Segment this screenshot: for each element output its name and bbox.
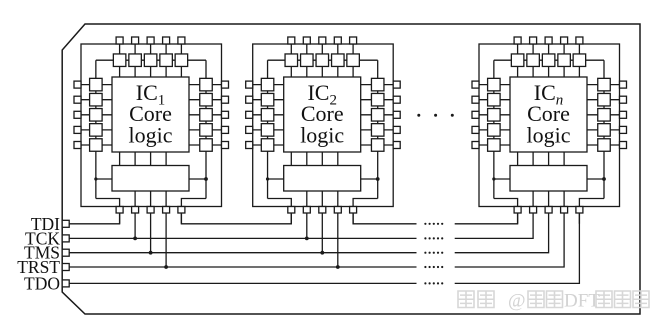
ICn left pin 5 <box>472 142 479 149</box>
ICn left scan cell 3 <box>488 109 501 122</box>
IC2 wire left row 5 <box>250 144 284 146</box>
IC1 right scan cell 4 <box>200 124 213 136</box>
ICn right pin 5 <box>620 142 627 149</box>
IC2 wire left row 4 <box>250 129 284 131</box>
IC2 wire TDO exit pin5 <box>353 199 378 224</box>
ICn wire core-TAP 3 <box>548 152 550 166</box>
IC1 wire TAP-pin3 <box>150 191 152 213</box>
ICn core logic block <box>510 77 587 152</box>
IC1 left pin 4 <box>74 126 81 133</box>
wire IC2 pin3 drop <box>321 213 323 253</box>
IC2 left scan cell 4 <box>261 124 274 136</box>
ICn wire TAP-pin3 <box>548 191 550 213</box>
wire TDI bus to IC1 pin1 <box>69 213 120 224</box>
ICn bottom pin 5 <box>576 207 583 214</box>
IC1 wire top column 2 <box>134 40 136 77</box>
IC1 wire core-TAP 3 <box>150 152 152 166</box>
svg-text:@: @ <box>508 291 526 312</box>
ICn wire right row 4 <box>587 129 623 131</box>
ICn bottom pin 2 <box>530 207 537 214</box>
board pin TDO <box>62 280 69 287</box>
ICn wire core-TAP 2 <box>532 152 534 166</box>
ICn left pin 3 <box>472 111 479 118</box>
IC1 wire TAP-pin2 <box>134 191 136 213</box>
IC1 scan-chain wire top row <box>96 59 206 61</box>
svg-text:DFT: DFT <box>564 291 600 312</box>
IC2 wire right row 1 <box>361 84 397 86</box>
ICn wire left row 5 <box>476 144 510 146</box>
ICn junction TAP right <box>602 177 606 181</box>
ICn top scan cell 2 <box>527 54 540 66</box>
IC2 left scan cell 2 <box>261 93 274 106</box>
IC2 wire right row 4 <box>361 129 397 131</box>
wire IC2 TDO toward ICn <box>353 213 416 224</box>
svg-text:logic: logic <box>129 123 173 148</box>
IC2 right pin 2 <box>393 96 400 103</box>
ICn wire right row 1 <box>587 84 623 86</box>
ICn top pin 1 <box>514 37 521 44</box>
IC2 right pin 1 <box>393 81 400 88</box>
IC1 top pin 4 <box>163 37 170 44</box>
IC2 top scan cell 5 <box>347 54 360 66</box>
ICn bottom pin 3 <box>545 207 552 214</box>
IC1 top pin 3 <box>147 37 154 44</box>
ICn right scan cell 2 <box>598 93 611 106</box>
IC2 wire TDI entry pin1 <box>268 199 292 224</box>
ICn top scan cell 4 <box>558 54 571 66</box>
ICn top scan cell 1 <box>511 54 523 66</box>
ICn wire TAP-pin2 <box>532 191 534 213</box>
ICn right pin 3 <box>620 111 627 118</box>
ICn wire top column 2 <box>532 40 534 77</box>
IC2 top pin 1 <box>288 37 295 44</box>
ICn scan-chain wire left column <box>493 60 495 198</box>
IC1 wire core-TAP 4 <box>165 152 167 166</box>
watermark zhihu <box>458 291 474 308</box>
IC1 right pin 5 <box>222 142 229 149</box>
ICn left scan cell 1 <box>488 78 501 91</box>
dots TRST continuation <box>424 266 426 268</box>
ICn right pin 4 <box>620 126 627 133</box>
IC1 right pin 3 <box>222 111 229 118</box>
board pin TDI <box>62 220 69 227</box>
ICn right scan cell 4 <box>598 124 611 136</box>
IC1 wire left row 4 <box>78 129 112 131</box>
IC1 top scan cell 5 <box>175 54 188 66</box>
wire TMS bus <box>69 252 417 254</box>
IC2 wire TAP-pin3 <box>321 191 323 213</box>
IC1 right scan cell 1 <box>200 78 213 91</box>
IC1 right scan cell 3 <box>200 109 213 122</box>
ICn right pin 1 <box>620 81 627 88</box>
svg-text:logic: logic <box>300 123 344 148</box>
ICn wire right row 2 <box>587 99 623 101</box>
dots TDI-chain continuation <box>424 223 426 225</box>
IC2 wire top column 4 <box>337 40 339 77</box>
IC1 top pin 2 <box>132 37 139 44</box>
IC1 scan-chain wire right column <box>205 60 207 198</box>
ICn left pin 1 <box>472 81 479 88</box>
IC2 right pin 5 <box>393 142 400 149</box>
ICn top pin 3 <box>545 37 552 44</box>
ICn left scan cell 2 <box>488 93 501 106</box>
IC1 left scan cell 1 <box>90 78 103 91</box>
IC2 wire right row 2 <box>361 99 397 101</box>
ICn scan-chain wire top row <box>494 59 604 61</box>
junction TRST-IC2 <box>336 265 340 269</box>
IC1 right scan cell 2 <box>200 93 213 106</box>
IC1 bottom pin 3 <box>147 207 154 214</box>
ICn wire top column 1 <box>517 40 519 77</box>
IC1 wire core-TAP 2 <box>134 152 136 166</box>
IC2 right pin 4 <box>393 126 400 133</box>
ICn wire left row 4 <box>476 129 510 131</box>
IC1 top pin 5 <box>178 37 185 44</box>
ICn top scan cell 5 <box>573 54 586 66</box>
ICn top pin 5 <box>576 37 583 44</box>
IC2 TAP controller <box>284 166 361 192</box>
wire IC1 TDO to IC2 TDI <box>181 213 291 224</box>
IC2 right pin 3 <box>393 111 400 118</box>
IC1 right pin 4 <box>222 126 229 133</box>
IC2 wire core-TAP 1 <box>290 152 292 166</box>
IC2 core logic block <box>284 77 361 152</box>
IC2 wire TAP left <box>268 178 284 180</box>
IC1 wire TAP-pin4 <box>165 191 167 213</box>
IC1 left pin 5 <box>74 142 81 149</box>
IC2 bottom pin 3 <box>319 207 326 214</box>
ICn wire TAP left <box>494 178 510 180</box>
IC2 top scan cell 3 <box>316 54 329 66</box>
IC2 top scan cell 2 <box>301 54 314 66</box>
IC1 left pin 2 <box>74 96 81 103</box>
IC2 wire TAP-pin4 <box>337 191 339 213</box>
board pin TCK <box>62 235 69 242</box>
IC1 top scan cell 3 <box>144 54 157 66</box>
ICn wire TAP right <box>587 178 604 180</box>
ICn wire left row 3 <box>476 114 510 116</box>
IC1 wire top column 4 <box>165 40 167 77</box>
IC1 left pin 3 <box>74 111 81 118</box>
ICn wire right row 3 <box>587 114 623 116</box>
IC2 wire core-TAP 3 <box>321 152 323 166</box>
wire ICn TDO return <box>455 213 580 283</box>
wire TRST to ICn pin4 <box>455 213 564 267</box>
IC1 wire top column 3 <box>150 40 152 77</box>
IC2 right scan cell 3 <box>371 109 384 122</box>
IC2 wire left row 2 <box>250 99 284 101</box>
IC2 left pin 2 <box>246 96 253 103</box>
ICn bottom pin 4 <box>561 207 568 214</box>
IC1 wire left row 2 <box>78 99 112 101</box>
IC1 right scan cell 5 <box>200 139 213 152</box>
junction TCK-IC2 <box>305 237 309 241</box>
IC2 bottom pin 5 <box>350 207 357 214</box>
board pin TMS <box>62 249 69 256</box>
IC2 left pin 1 <box>246 81 253 88</box>
ICn package <box>479 44 620 207</box>
IC1 wire left row 1 <box>78 84 112 86</box>
IC2 wire TAP right <box>361 178 378 180</box>
IC2 left scan cell 1 <box>261 78 274 91</box>
svg-text:logic: logic <box>527 123 571 148</box>
ICn left pin 2 <box>472 96 479 103</box>
IC1 wire top column 1 <box>119 40 121 77</box>
ICn wire left row 2 <box>476 99 510 101</box>
IC1 top scan cell 2 <box>129 54 142 66</box>
IC2 left pin 3 <box>246 111 253 118</box>
IC2 bottom pin 4 <box>334 207 341 214</box>
ICn left pin 4 <box>472 126 479 133</box>
IC2 left pin 4 <box>246 126 253 133</box>
IC2 wire right row 5 <box>361 144 397 146</box>
IC2 scan-chain wire top row <box>268 59 378 61</box>
IC2 wire left row 1 <box>250 84 284 86</box>
IC1 wire right row 1 <box>189 84 225 86</box>
IC2 bottom pin 2 <box>303 207 310 214</box>
dots TCK continuation <box>424 237 426 239</box>
IC1 scan-chain wire left column <box>95 60 97 198</box>
ICn wire core-TAP 1 <box>517 152 519 166</box>
IC2 top scan cell 1 <box>285 54 298 66</box>
IC1 right pin 1 <box>222 81 229 88</box>
IC2 wire TAP-pin2 <box>306 191 308 213</box>
wire IC2 pin2 drop <box>306 213 308 238</box>
IC1 bottom pin 5 <box>178 207 185 214</box>
wire IC1 pin3 drop <box>150 213 152 253</box>
IC1 wire core-TAP 1 <box>119 152 121 166</box>
ICn scan-chain wire right column <box>603 60 605 198</box>
IC1 top scan cell 1 <box>113 54 126 66</box>
junction TMS-IC1 <box>149 251 153 255</box>
IC2 top pin 2 <box>303 37 310 44</box>
IC1 wire right row 2 <box>189 99 225 101</box>
ICn wire top column 4 <box>563 40 565 77</box>
IC2 wire right row 3 <box>361 114 397 116</box>
IC1 wire top column 5 <box>180 40 182 77</box>
ICn TAP controller <box>510 166 587 192</box>
IC2 top pin 4 <box>334 37 341 44</box>
ICn left scan cell 4 <box>488 124 501 136</box>
ICn wire left row 1 <box>476 84 510 86</box>
IC2 scan-chain wire left column <box>267 60 269 198</box>
junction TMS-IC2 <box>320 251 324 255</box>
IC1 wire right row 5 <box>189 144 225 146</box>
ellipsis between IC2 and ICn <box>417 114 420 117</box>
ICn top pin 4 <box>561 37 568 44</box>
IC2 left scan cell 5 <box>261 139 274 152</box>
IC2 wire top column 1 <box>290 40 292 77</box>
ICn junction TAP left <box>492 177 495 180</box>
IC2 top scan cell 4 <box>332 54 345 66</box>
junction TCK-IC1 <box>133 237 137 241</box>
IC2 right scan cell 2 <box>371 93 384 106</box>
IC2 top pin 3 <box>319 37 326 44</box>
PCB board outline <box>62 24 640 314</box>
IC1 right pin 2 <box>222 96 229 103</box>
ICn wire top column 3 <box>548 40 550 77</box>
IC2 wire top column 5 <box>352 40 354 77</box>
ICn wire TAP-pin4 <box>563 191 565 213</box>
ICn wire right row 5 <box>587 144 623 146</box>
IC1 left scan cell 5 <box>90 139 103 152</box>
IC2 package <box>253 44 394 207</box>
ICn right pin 2 <box>620 96 627 103</box>
IC1 wire left row 3 <box>78 114 112 116</box>
IC2 wire top column 2 <box>306 40 308 77</box>
wire TDI-chain to ICn pin1 <box>455 213 518 224</box>
IC1 wire TAP left <box>96 178 112 180</box>
svg-text:TDO: TDO <box>24 273 60 293</box>
IC2 wire core-TAP 2 <box>306 152 308 166</box>
IC2 junction TAP right <box>376 177 380 181</box>
IC1 bottom pin 4 <box>163 207 170 214</box>
wire TCK bus <box>69 237 417 239</box>
IC1 bottom pin 2 <box>132 207 139 214</box>
IC1 wire TAP right <box>189 178 206 180</box>
IC2 left scan cell 3 <box>261 109 274 122</box>
IC2 left pin 5 <box>246 142 253 149</box>
ICn right scan cell 3 <box>598 109 611 122</box>
IC1 left scan cell 3 <box>90 109 103 122</box>
IC1 top pin 1 <box>116 37 123 44</box>
IC2 right scan cell 4 <box>371 124 384 136</box>
IC1 wire TDO exit pin5 <box>181 199 206 224</box>
IC1 left pin 1 <box>74 81 81 88</box>
ICn top pin 2 <box>530 37 537 44</box>
ICn bottom pin 1 <box>514 207 521 214</box>
IC1 core logic block <box>112 77 189 152</box>
wire TRST bus <box>69 266 417 268</box>
junction TRST-IC1 <box>164 265 168 269</box>
IC2 scan-chain wire right column <box>377 60 379 198</box>
IC1 bottom pin 1 <box>116 207 123 214</box>
ICn right scan cell 1 <box>598 78 611 91</box>
IC1 junction TAP right <box>204 177 208 181</box>
IC2 top pin 5 <box>350 37 357 44</box>
dots TDO continuation <box>424 282 426 284</box>
IC1 left scan cell 4 <box>90 124 103 136</box>
ICn wire TDO exit pin5 <box>579 199 604 224</box>
IC2 right scan cell 5 <box>371 139 384 152</box>
IC2 wire top column 3 <box>321 40 323 77</box>
IC1 wire TDI entry pin1 <box>96 199 120 224</box>
ICn wire core-TAP 4 <box>563 152 565 166</box>
ICn wire top column 5 <box>578 40 580 77</box>
IC1 junction TAP left <box>94 177 97 180</box>
dots TMS continuation <box>424 252 426 254</box>
wire IC1 pin4 drop <box>165 213 167 267</box>
wire IC2 pin4 drop <box>337 213 339 267</box>
IC2 junction TAP left <box>266 177 269 180</box>
ICn top scan cell 3 <box>542 54 555 66</box>
ICn right scan cell 5 <box>598 139 611 152</box>
IC2 wire core-TAP 4 <box>337 152 339 166</box>
wire IC1 pin2 drop <box>134 213 136 238</box>
ICn left scan cell 5 <box>488 139 501 152</box>
wire TDO bus <box>69 282 417 284</box>
IC1 top scan cell 4 <box>160 54 173 66</box>
wire TMS to ICn pin3 <box>455 213 549 253</box>
IC1 TAP controller <box>112 166 189 192</box>
ICn wire TDI entry pin1 <box>494 199 518 224</box>
IC1 package <box>81 44 222 207</box>
board pin TRST <box>62 264 69 271</box>
IC1 left scan cell 2 <box>90 93 103 106</box>
IC1 wire right row 3 <box>189 114 225 116</box>
IC2 wire left row 3 <box>250 114 284 116</box>
wire TCK to ICn pin2 <box>455 213 533 238</box>
IC2 bottom pin 1 <box>288 207 295 214</box>
IC1 wire right row 4 <box>189 129 225 131</box>
IC1 wire left row 5 <box>78 144 112 146</box>
IC2 right scan cell 1 <box>371 78 384 91</box>
